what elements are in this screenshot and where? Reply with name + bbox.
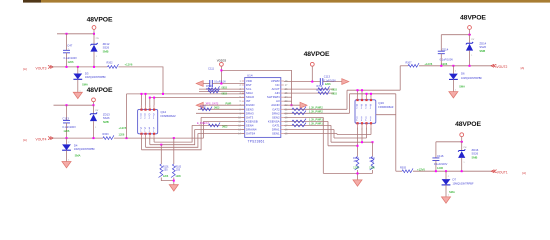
transistor Q16 pin pads: [356, 99, 372, 124]
resistor R302: [107, 61, 133, 68]
svg-text:VDD33: VDD33: [217, 58, 227, 62]
resistor R710 GAT2 row: [284, 107, 347, 111]
transistor Q12 body: [138, 109, 177, 133]
wire XPS_GAT3 row: [203, 102, 245, 105]
resistor R712 KSENSA row: [284, 119, 328, 123]
diode D7: [442, 171, 474, 197]
wire SHTDWN stub: [284, 96, 292, 98]
svg-text:48VPOE: 48VPOE: [455, 121, 481, 128]
svg-text:0603: 0603: [222, 126, 228, 129]
node rail A junctions: [141, 93, 165, 95]
transistor Q12 pin pads: [140, 109, 155, 135]
svg-text:VOUT2: VOUT2: [496, 65, 507, 69]
svg-text:48VPOE: 48VPOE: [87, 87, 113, 94]
svg-text:0603: 0603: [214, 107, 220, 110]
svg-text:0.1uF/100V: 0.1uF/100V: [434, 162, 448, 166]
wire bottom rail C right: [331, 125, 373, 142]
wire drain rail B y97.6: [150, 97, 245, 99]
wire AGND row: [284, 104, 300, 106]
svg-text:ZD12: ZD12: [103, 42, 110, 46]
svg-text:[A]: [A]: [522, 171, 526, 175]
resistor R103: [353, 156, 359, 170]
svg-text:[A]: [A]: [23, 138, 27, 142]
wire sense tap x372.5: [372, 142, 374, 156]
node VOUT3 junctions: [66, 66, 96, 68]
svg-text:VOUT4: VOUT4: [36, 138, 47, 142]
svg-text:1: 1: [455, 89, 456, 91]
svg-text:1206: 1206: [325, 82, 331, 86]
svg-text:1: 1: [68, 48, 69, 50]
transistor Q12 pin numbers: [141, 106, 156, 141]
power label 48VPOE (top-left): [87, 17, 113, 24]
svg-text:R709: R709: [317, 85, 323, 88]
pin marks ZD13: [95, 110, 98, 129]
svg-text:R303: R303: [103, 133, 110, 136]
wire DRA1 row: [284, 129, 334, 131]
svg-text:[A]: [A]: [521, 66, 525, 70]
wire KSENSB row: [204, 120, 245, 122]
svg-text:SMB: SMB: [103, 120, 109, 124]
svg-text:10MQ100NTRPBF: 10MQ100NTRPBF: [85, 76, 106, 79]
wire riser VOUT4 to KSENSB row: [203, 121, 205, 138]
svg-text:R701: R701: [206, 88, 212, 91]
diode D6: [449, 66, 482, 92]
off-page arrow AGND row (right): [300, 102, 307, 108]
pin marks C114: [443, 49, 444, 51]
node VOUT2 junctions: [440, 65, 470, 67]
wire VOUT1 net: [396, 170, 492, 172]
svg-text:D7: D7: [453, 177, 457, 181]
resistor R702: [198, 105, 245, 110]
wire bottom rail 3: [146, 134, 198, 148]
transistor Q16 pin names: [356, 105, 372, 122]
wire 48VPOE rail bottom-right: [436, 141, 463, 143]
svg-text:VOUT3: VOUT3: [36, 66, 47, 70]
ground (right sense resistors): [353, 180, 362, 186]
node rail T2 junctions: [366, 93, 373, 95]
wire bottom rail A right: [337, 134, 371, 135]
node VOUT1 junctions: [435, 170, 463, 172]
power symbol 48VPOE circle (top-left): [92, 26, 96, 34]
power label 48VPOE (lower-left): [87, 87, 113, 94]
wire VOUT3 net: [52, 66, 108, 68]
svg-text:XPS_GAT3: XPS_GAT3: [206, 102, 219, 105]
resistor R307: [406, 61, 433, 67]
svg-text:E_POE3.3: E_POE3.3: [197, 122, 209, 125]
svg-text:SMA: SMA: [82, 82, 88, 86]
transistor Q16 pin stub highlights: [358, 96, 372, 128]
wire VOUT4 net: [52, 137, 103, 139]
svg-text:1206: 1206: [369, 167, 375, 170]
capacitor C113: [284, 75, 342, 86]
zener diode ZD14: [466, 35, 487, 66]
wire 48VPOE rail lower-left: [54, 104, 94, 106]
power label 48VPOE (center): [304, 51, 330, 58]
ground (left sense resistors): [169, 185, 178, 191]
svg-text:0.1uF/100V: 0.1uF/100V: [64, 56, 78, 60]
node rail T1 junctions: [357, 89, 364, 91]
svg-text:0603: 0603: [222, 93, 228, 96]
wire GATE4 row: [198, 133, 245, 135]
pin marks ZD12: [96, 38, 99, 58]
resistor R713 GAT1 row: [284, 123, 331, 127]
IC U14 left pin numbers: [238, 81, 241, 136]
wire long riser x395.8 to VOUT1 net: [395, 94, 397, 171]
resistor R704 on SEN4 row: [192, 122, 245, 128]
svg-text:1206: 1206: [63, 129, 69, 133]
svg-text:.255: .255: [175, 169, 180, 172]
svg-text:PW: PW: [96, 38, 99, 40]
node sense join: [173, 180, 175, 182]
resistor R700: [199, 85, 245, 91]
resistor R708: [284, 89, 338, 96]
svg-text:R302: R302: [107, 61, 114, 64]
diode D3: [73, 67, 106, 92]
wire drain rail T1: [347, 89, 400, 91]
svg-text:Q16: Q16: [378, 101, 384, 105]
svg-text:1.2K_PWR1: 1.2K_PWR1: [309, 123, 323, 126]
resistor R104: [369, 156, 375, 170]
node rail junction top-right: [469, 34, 471, 36]
IC U14 left pin names: [246, 79, 258, 136]
wire sense resistor join: [161, 178, 174, 185]
op-amp U1 -- IC U14 TPS23861 body: [245, 73, 281, 143]
wire 48VPOE rail top-left: [57, 33, 94, 35]
pin marks C112: [68, 118, 69, 120]
svg-text:27: 27: [285, 85, 288, 87]
title bar dark segment: [23, 0, 41, 3]
svg-text:0.1uF/100V: 0.1uF/100V: [440, 58, 454, 62]
resistor R305: [400, 167, 425, 173]
svg-text:2: 2: [240, 85, 242, 87]
svg-text:SS26: SS26: [103, 116, 110, 120]
IC U14 right pin names: [267, 79, 280, 136]
svg-text:ZD16: ZD16: [472, 148, 479, 152]
power symbol 48VPOE circle (center): [310, 62, 314, 81]
zener diode ZD13: [90, 105, 110, 138]
power label 48VPOE (bottom-right): [455, 121, 481, 128]
svg-text:10MQ100NTRPBF: 10MQ100NTRPBF: [74, 148, 95, 151]
wire drain rail T2: [350, 93, 396, 95]
svg-text:SMB: SMB: [479, 49, 485, 53]
svg-text:1: 1: [80, 90, 81, 92]
ground (below D4): [62, 162, 71, 168]
ground (below D7): [442, 197, 451, 203]
capacitor C114: [438, 35, 453, 66]
power label 48VPOE (top-right): [460, 15, 486, 22]
wire bottom rail 2: [150, 130, 195, 145]
wire SEN2 row: [284, 116, 324, 118]
svg-text:SMB: SMB: [472, 155, 478, 159]
svg-text:Q12: Q12: [161, 110, 167, 114]
svg-text:C116: C116: [437, 154, 444, 158]
wire SEN1 row: [284, 133, 337, 135]
off-page arrow XPS_GAT3 row: [196, 102, 203, 108]
svg-text:1.2K_PWR1: 1.2K_PWR1: [309, 119, 323, 122]
node rail junctions lower-left: [66, 104, 95, 106]
svg-text:1206: 1206: [119, 133, 125, 137]
wire riser x400.2 to VOUT2 net: [399, 66, 401, 90]
svg-text:C113: C113: [324, 75, 331, 79]
wire bottom rail 4: [142, 117, 202, 149]
svg-text:+12V6: +12V6: [119, 126, 127, 130]
node C111 row junction: [220, 83, 222, 85]
svg-text:0.1uF/6.3V: 0.1uF/6.3V: [214, 80, 226, 83]
node bottom rail junctions: [160, 144, 162, 146]
svg-text:2: 2: [68, 142, 69, 144]
node rail D junction: [357, 145, 359, 147]
pin marks D3: [80, 71, 81, 93]
svg-text:TPS23861: TPS23861: [248, 140, 265, 144]
node VOUT4 junctions: [66, 137, 95, 139]
wire bottom rail 1: [154, 125, 192, 142]
svg-text:SMA: SMA: [75, 154, 81, 158]
svg-text:FDS86068AZ: FDS86068AZ: [161, 115, 177, 118]
power label VDD33: [217, 58, 227, 62]
power symbol 48VPOE circle (bottom-right): [460, 133, 464, 142]
svg-text:R708: R708: [317, 89, 323, 92]
pin marks D7: [448, 176, 449, 197]
svg-text:SS26: SS26: [103, 46, 110, 50]
svg-text:0603: 0603: [332, 88, 338, 91]
wire DRAIN4 row: [195, 129, 245, 131]
wire Q16 source pins down: [358, 123, 372, 156]
svg-text:ZD14: ZD14: [479, 42, 486, 46]
svg-text:1206: 1206: [68, 60, 74, 64]
svg-text:48VPOE: 48VPOE: [460, 15, 486, 22]
svg-text:SS26: SS26: [472, 152, 479, 156]
wire sense join right: [323, 170, 372, 180]
wire riser GAT2 x347: [346, 90, 348, 109]
svg-text:10MQ100NTRPBF: 10MQ100NTRPBF: [461, 77, 482, 80]
off-page connector VOUT4: [23, 137, 53, 142]
wire riser SEN2 x323.3: [322, 117, 324, 173]
resistor R100: [171, 164, 182, 178]
IC U14 right pin stubs: [281, 81, 284, 134]
transistor Q12 pin names: [140, 115, 155, 133]
wire DRA3 row: [196, 112, 245, 114]
node sense join right: [357, 172, 359, 174]
svg-text:1206: 1206: [175, 175, 181, 178]
svg-text:1: 1: [96, 56, 97, 58]
resistor R709: [284, 85, 338, 91]
node rail B junctions: [149, 97, 155, 99]
svg-text:SMA: SMA: [459, 85, 465, 89]
wire riser DRA2 x349.5: [349, 94, 351, 114]
svg-text:1: 1: [448, 195, 449, 197]
svg-text:1: 1: [464, 162, 465, 164]
svg-text:PW: PW: [95, 110, 98, 112]
pin marks ZD16: [464, 147, 467, 164]
IC U14 left pin stubs: [242, 81, 245, 134]
wire Q12 drain pins up: [142, 94, 155, 110]
pin marks D6: [455, 71, 456, 92]
svg-text:1: 1: [471, 55, 472, 57]
svg-text:1: 1: [68, 118, 69, 120]
wire GAT3 row: [201, 116, 245, 118]
off-page connector VOUT1: [491, 170, 526, 175]
resistor R711 DRA2 row: [284, 111, 350, 115]
resistor R303: [103, 133, 114, 140]
node VDD33 junction: [220, 69, 222, 71]
svg-text:6: 6: [240, 101, 242, 103]
title bar light segment: [41, 0, 550, 3]
svg-text:SS26: SS26: [479, 45, 486, 49]
wire Q12 source pins down: [142, 134, 155, 150]
pin marks ZD14: [471, 39, 474, 57]
wire Q16 drain pins up: [358, 90, 372, 100]
node UPWR junction: [311, 81, 313, 83]
svg-text:2: 2: [455, 71, 456, 73]
wire drain rail A y93: [127, 93, 245, 95]
ground (below D3): [73, 92, 82, 98]
svg-text:SEN1: SEN1: [272, 132, 280, 136]
wire bottom rail D right: [328, 121, 358, 145]
wire R303 to riser: [114, 126, 204, 138]
capacitor C116: [432, 142, 447, 171]
svg-text:0603: 0603: [332, 93, 338, 96]
wire 48VPOE rail top-right: [441, 34, 471, 36]
transistor Q12 pin stub highlights: [142, 105, 155, 138]
wire +12V6 net from R302: [119, 67, 164, 94]
svg-text:+12V6: +12V6: [125, 62, 133, 66]
power symbol VDD33 circle: [220, 62, 224, 83]
node 48VPOE rail junctions: [66, 33, 96, 35]
svg-text:1.2K_PWR2: 1.2K_PWR2: [309, 107, 323, 110]
svg-text:1206: 1206: [353, 167, 359, 170]
capacitor C47: [63, 34, 77, 67]
transistor Q16 pin numbers: [357, 97, 373, 131]
resistor R101: [159, 164, 170, 178]
power symbol 48VPOE circle (top-right): [468, 26, 472, 35]
svg-text:.255: .255: [353, 160, 358, 163]
wire VDD33 top loop to right: [221, 70, 291, 105]
svg-text:PWR: PWR: [226, 102, 232, 105]
svg-text:SMB: SMB: [103, 49, 109, 53]
node rail C junctions: [361, 141, 374, 143]
svg-text:48VPOE: 48VPOE: [304, 51, 330, 58]
wire bottom rail B right: [334, 130, 367, 139]
node rail junction bottom-right: [461, 141, 463, 143]
wire VOUT2 net: [400, 65, 491, 67]
IC U14 right pin numbers: [285, 81, 288, 136]
svg-text:10MQ100NTRPBF: 10MQ100NTRPBF: [453, 183, 474, 186]
svg-text:1206: 1206: [437, 166, 443, 170]
resistor R701: [199, 88, 245, 95]
off-page arrow UPWR row (right): [342, 79, 349, 85]
ground (below D6): [449, 92, 458, 98]
node VOUT4 sense junctions: [126, 137, 175, 139]
zener diode ZD12: [90, 34, 109, 67]
svg-text:[A]: [A]: [23, 67, 27, 71]
svg-text:.255: .255: [369, 160, 374, 163]
svg-text:D6: D6: [461, 72, 465, 76]
power symbol 48VPOE circle (lower-left): [92, 98, 96, 105]
svg-text:C111: C111: [208, 66, 215, 70]
svg-text:1: 1: [240, 81, 242, 83]
svg-text:C47: C47: [67, 43, 73, 47]
svg-text:2: 2: [448, 176, 449, 178]
svg-text:0.1uF/100V: 0.1uF/100V: [62, 125, 76, 129]
svg-text:PW: PW: [471, 39, 474, 41]
svg-text:2: 2: [80, 71, 81, 73]
svg-text:1: 1: [95, 127, 96, 129]
svg-text:1: 1: [68, 159, 69, 161]
wire sense taps down: [161, 138, 174, 164]
svg-text:0.1uF/100V: 0.1uF/100V: [324, 79, 337, 82]
svg-text:R305: R305: [400, 167, 407, 170]
pin marks C47: [68, 48, 69, 50]
off-page connector VOUT3: [23, 65, 53, 70]
transistor Q16 body: [355, 100, 394, 124]
svg-text:VOUT1: VOUT1: [497, 170, 508, 174]
node XPS_GAT3 junction: [291, 104, 293, 106]
svg-text:GATE4: GATE4: [246, 132, 256, 136]
svg-text:1: 1: [443, 49, 444, 51]
diode D4: [62, 138, 95, 161]
svg-text:FDS86068AZ: FDS86068AZ: [378, 106, 394, 109]
svg-text:ZD13: ZD13: [103, 113, 110, 117]
svg-text:1.2K_PWR2: 1.2K_PWR2: [309, 111, 323, 114]
svg-text:SMA: SMA: [449, 190, 455, 194]
wire Q16 drain to riser: [376, 114, 396, 116]
capacitor C112: [62, 105, 76, 138]
svg-text:U14: U14: [247, 73, 253, 77]
wire riser x126.5 to VOUT4 net: [126, 94, 128, 138]
pin marks D4: [68, 142, 69, 161]
svg-text:PW: PW: [464, 147, 467, 149]
off-page connector VOUT2: [491, 64, 524, 70]
zener diode ZD16: [458, 142, 479, 171]
svg-text:1206: 1206: [163, 175, 169, 178]
svg-text:.255: .255: [163, 169, 168, 172]
svg-text:48VPOE: 48VPOE: [87, 17, 113, 24]
off-page arrow RST row: [196, 81, 203, 87]
svg-text:0603: 0603: [222, 86, 228, 89]
svg-text:R702: R702: [200, 105, 206, 108]
capacitor C111: [203, 66, 245, 87]
wire A3 stub: [284, 100, 292, 102]
